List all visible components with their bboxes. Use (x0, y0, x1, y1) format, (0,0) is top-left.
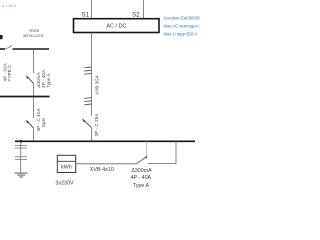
svg-text:XVB 4x10: XVB 4x10 (90, 167, 114, 173)
svg-text:Max AC vermogen 3k: Max AC vermogen 3k (164, 23, 201, 28)
svg-text:Type A: Type A (46, 73, 51, 88)
svg-text:S1: S1 (82, 13, 90, 19)
svg-text:INSTALLATIE: INSTALLATIE (23, 34, 44, 38)
svg-text:Goodwe GW3600D-N: Goodwe GW3600D-N (164, 15, 201, 20)
svg-text:2P - C 25A: 2P - C 25A (94, 113, 99, 137)
svg-text:4P - 40A: 4P - 40A (131, 175, 152, 181)
svg-text:AC / DC: AC / DC (106, 23, 126, 29)
svg-text:XVB 3G4: XVB 3G4 (94, 75, 99, 95)
svg-text:kWh: kWh (61, 165, 72, 171)
svg-text:Max U mpp 550 V: Max U mpp 550 V (164, 31, 198, 36)
svg-text:3x230V: 3x230V (56, 181, 74, 187)
svg-text:Sper: Sper (41, 117, 46, 127)
svg-text:u = 40,4: u = 40,4 (2, 4, 16, 8)
svg-text:Δ300mA: Δ300mA (131, 168, 152, 174)
svg-text:TYPE C: TYPE C (7, 64, 12, 82)
svg-text:Type A: Type A (133, 183, 150, 189)
svg-text:S2: S2 (132, 13, 140, 19)
svg-text:HUIS: HUIS (29, 28, 39, 33)
